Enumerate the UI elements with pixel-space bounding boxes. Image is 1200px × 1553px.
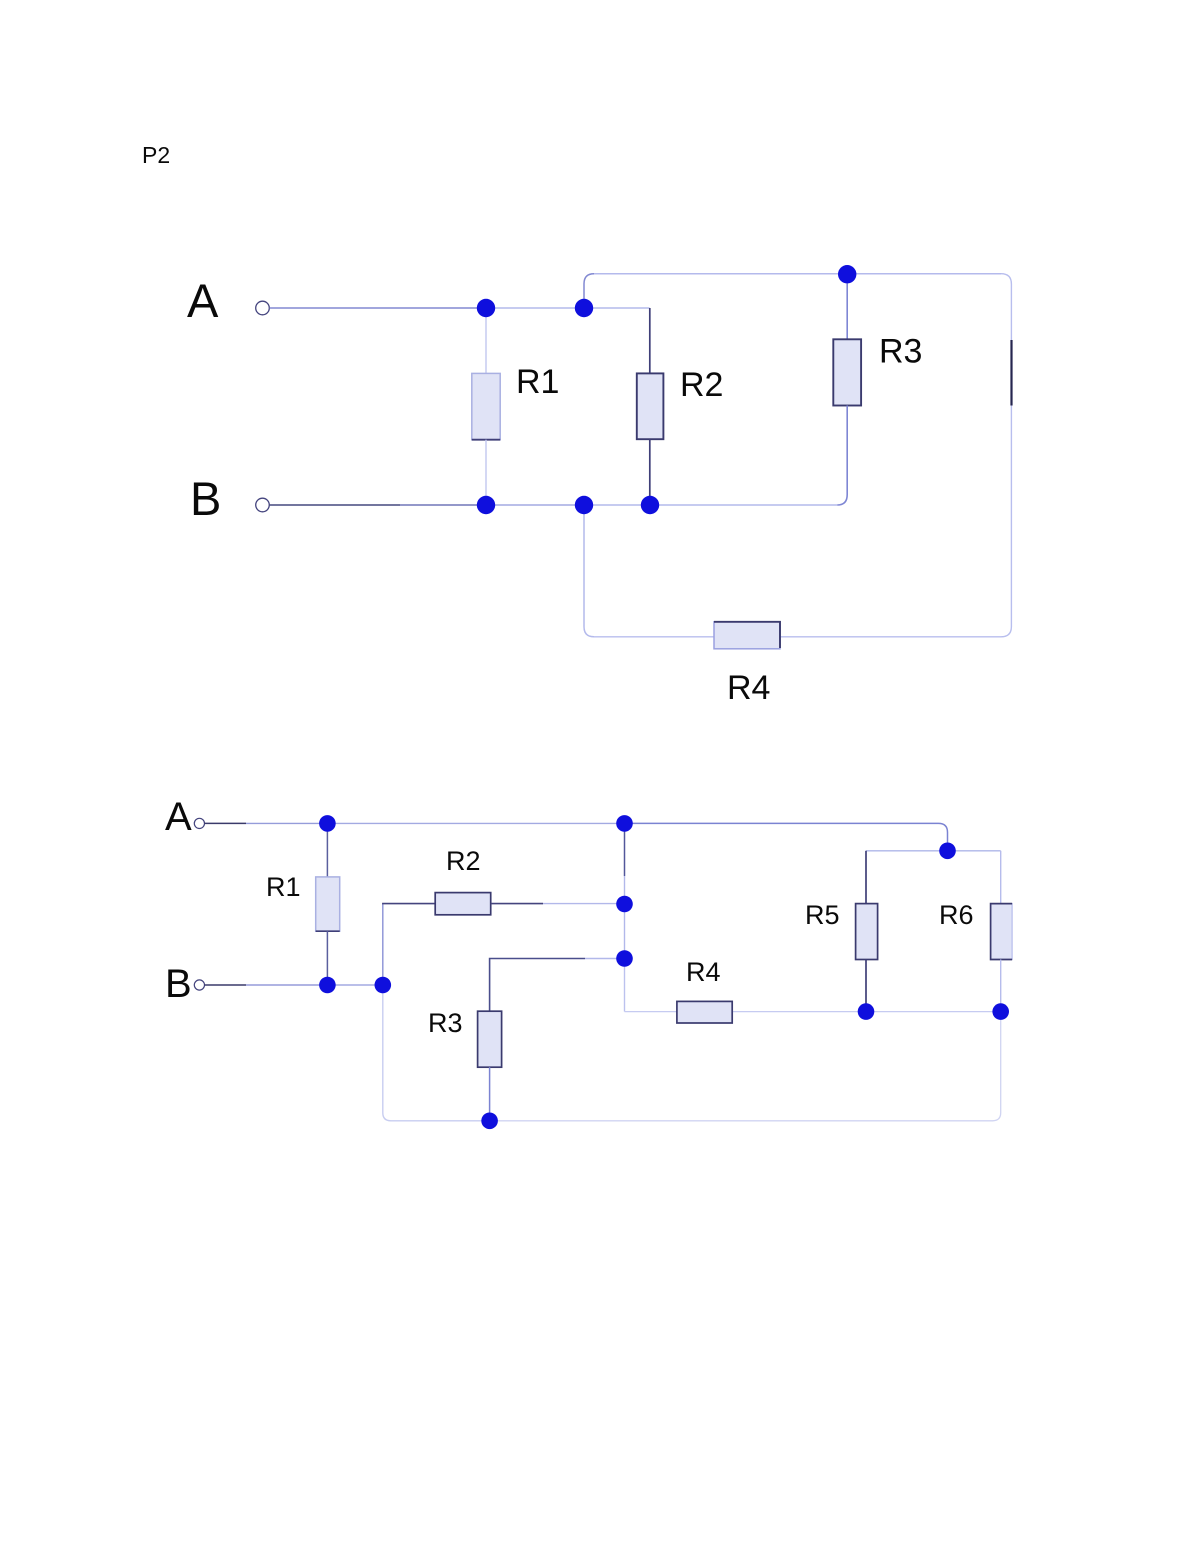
wire B stub to JB1 [246,984,327,986]
wire R2 right side dark [491,903,543,905]
svg-text:R2: R2 [446,846,481,876]
resistor R4 (bottom circuit, horizontal) [677,1001,732,1023]
svg-text:R6: R6 [939,900,974,930]
resistor R2 (bottom circuit, horizontal) [435,893,491,915]
svg-text:R2: R2 [680,366,723,404]
stray dark segment on right loop [1010,340,1012,406]
wire JA4 left toward R3 (light part) [585,958,625,960]
wire right loop vertical [1001,274,1011,637]
wire JB1 to JB2 [327,984,382,986]
wire A stub to JA1 [246,822,327,824]
svg-text:R5: R5 [805,900,840,930]
wire JA2 to right corner down to JA5 [625,823,948,850]
junction dot R6 bottom [992,1003,1009,1020]
svg-text:R4: R4 [727,669,770,707]
junction dot JB2 [375,977,392,994]
wire R2 top lead [649,308,651,373]
svg-text:R1: R1 [516,363,559,401]
resistor R1 dark bottom edge [472,439,500,441]
junction dot J2 [575,299,593,317]
svg-text:P2: P2 [142,142,170,168]
wire R1 top lead [485,308,487,373]
svg-text:R3: R3 [879,333,922,371]
wire bottom loop left [383,985,490,1121]
wire bottom loop right [490,1012,1001,1121]
junction dot R3 bottom [481,1113,498,1130]
wire R3 corner to J6 [650,504,837,506]
junction dot J5 [575,496,593,514]
wire A terminal dark stub [205,822,246,824]
resistor R1 dark bottom edge (bottom circuit) [316,930,340,932]
wire R5 top lead [865,851,867,904]
svg-text:R3: R3 [428,1008,463,1038]
wire R4 row [625,1011,1001,1013]
wire A terminal to node J1 [270,307,485,309]
resistor R6 [991,904,1013,960]
wire riser J2 up to top loop [584,274,594,308]
wire JB2 riser to R2 row [382,904,384,985]
junction dot R5 bottom [858,1003,875,1020]
wire JA4 down to R4 row [624,959,626,1012]
wire JA1 to JA2 [327,822,624,824]
svg-text:A: A [187,274,219,327]
wire bottom loop horizontal through R4 [594,636,1001,638]
wire R2 right side light to JA3 [543,903,625,905]
resistor R1 (bottom circuit) [316,877,340,931]
wire R1 bottom lead (bottom circuit) [326,931,328,985]
terminal B open circle (top circuit) [256,498,270,512]
wire R2 bottom lead [649,439,651,505]
resistor R4 (horizontal) [714,622,780,649]
wire top loop horizontal [594,273,1001,275]
wire bottom-left loop corner up to node B [584,505,594,637]
resistor R4 dark top edge [714,622,780,648]
resistor R1 [472,373,500,439]
wire R3 bottom lead [489,1067,491,1121]
junction dot J3 (R3 top node) [838,265,856,283]
wire B terminal to node J4 (dark part) [270,504,400,506]
svg-text:B: B [165,962,192,1006]
svg-text:A: A [165,795,192,839]
wire JA3 to JA4 [624,904,626,959]
wire R1 bottom lead [485,440,487,505]
wire J5 to J6 [584,504,650,506]
wire R5 bottom lead [865,960,867,1012]
svg-text:R1: R1 [266,872,301,902]
wire B terminal to node J4 (light part) [400,504,486,506]
wire top-right row R5 to R6 [866,850,1001,852]
junction dot JA2 [616,815,633,832]
junction dot J4 (node B) [477,496,495,514]
wire R1 top lead (bottom circuit) [326,823,328,877]
wire B terminal dark stub [205,984,246,986]
svg-text:B: B [190,472,221,525]
resistor R5 [856,904,878,960]
resistor R3 [833,339,861,405]
terminal A open circle (bottom circuit) [194,818,204,828]
wire J4 to J5 [486,504,584,506]
junction dot J6 [641,496,659,514]
junction dot JB1 [319,977,336,994]
junction dot JA4 [616,950,633,967]
wire corner into R2 left [382,903,435,905]
terminal B open circle (bottom circuit) [194,980,204,990]
resistor R2 [637,373,664,439]
wire R6 top lead [1000,851,1002,904]
wire JA2 down to JA3 [624,823,626,876]
svg-text:R4: R4 [686,957,721,987]
resistor R3 (bottom circuit) [478,1011,502,1067]
wire R3 top lead [846,274,848,339]
junction dot JA1 [319,815,336,832]
wire R3 bottom lead [837,406,847,506]
wire toward R3 (dark part) with corner down [490,959,585,1012]
wire J1 to J2 [485,307,584,309]
terminal A open circle (top circuit) [256,301,270,315]
wire J2 to R2 top corner [584,307,650,309]
wire R6 bottom lead [1000,960,1002,1012]
junction dot JA3 [616,896,633,913]
junction dot J1 (node A) [477,299,495,317]
junction dot JA5 (top right) [939,843,956,860]
